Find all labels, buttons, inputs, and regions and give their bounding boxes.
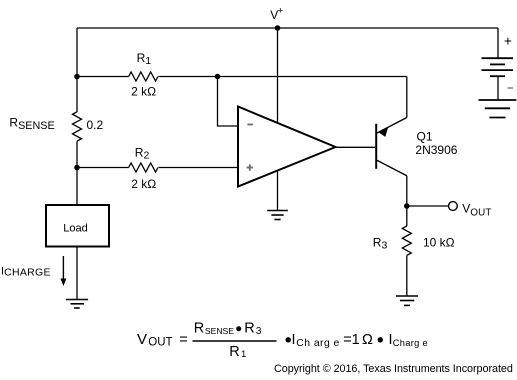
ground load	[66, 300, 88, 309]
op-amp minus pin mark	[247, 124, 252, 126]
svg-text:1: 1	[241, 349, 246, 360]
svg-text:Charg e: Charg e	[393, 338, 428, 348]
svg-text:I: I	[292, 332, 296, 348]
svg-text:ICHARGE: ICHARGE	[1, 265, 51, 278]
wire R2 net left	[77, 167, 129, 169]
ground op-amp	[267, 211, 288, 220]
svg-text:10 kΩ: 10 kΩ	[423, 236, 455, 250]
svg-text:3: 3	[256, 326, 262, 337]
wire output node to R3	[406, 206, 408, 226]
op-amp U1	[238, 107, 336, 187]
svg-text:Load: Load	[63, 222, 87, 234]
svg-text:Q1: Q1	[417, 130, 433, 144]
resistor R3	[402, 226, 411, 255]
node junction dot top of RSENSE	[74, 74, 80, 80]
wire to VOUT terminal	[407, 205, 449, 207]
wire battery to ground	[497, 76, 499, 100]
svg-text:OUT: OUT	[148, 337, 172, 349]
wire battery from rail	[497, 28, 499, 58]
svg-text:Copyright © 2016, Texas Instru: Copyright © 2016, Texas Instruments Inco…	[274, 363, 513, 375]
svg-text:V: V	[137, 331, 147, 348]
transistor Q1 base bar	[375, 124, 377, 169]
wire emitter net horizontal	[218, 76, 407, 78]
svg-text:+: +	[278, 6, 284, 17]
resistor R1	[129, 72, 158, 81]
svg-text:Ch arg e: Ch arg e	[296, 338, 339, 349]
node output junction dot	[404, 203, 410, 209]
resistor RSENSE	[73, 112, 82, 141]
wire op-amp V- supply to ground	[277, 171, 279, 211]
svg-text:Ω: Ω	[362, 332, 373, 348]
resistor R2	[129, 163, 158, 172]
battery B1 plates	[482, 58, 514, 76]
wire R1 right to feedback node	[159, 76, 218, 78]
node junction dot bottom of RSENSE	[74, 165, 80, 171]
load box	[46, 205, 109, 247]
formula VOUT equation	[137, 321, 428, 361]
wire collector down to output node	[406, 176, 408, 206]
wire R2 right to noninverting input	[159, 167, 238, 169]
wire left vertical upper	[76, 28, 78, 112]
wire op-amp output to base	[336, 146, 376, 148]
label battery minus	[508, 87, 514, 89]
svg-text:R: R	[244, 321, 254, 337]
terminal VOUT circle	[449, 202, 458, 211]
transistor Q1 emitter diagonal with arrow	[377, 118, 407, 134]
ground R3	[396, 296, 418, 305]
wire R3 to ground	[406, 256, 408, 297]
op-amp plus pin mark	[247, 167, 253, 169]
svg-text:2 kΩ: 2 kΩ	[131, 85, 156, 99]
wire load to ground	[76, 247, 78, 300]
arrow ICHARGE current direction	[62, 256, 64, 280]
wire R1 net left	[77, 76, 129, 78]
node V+ junction dot	[275, 25, 281, 31]
ground battery	[479, 100, 517, 118]
svg-text:SENSE: SENSE	[205, 326, 234, 336]
transistor Q1 collector diagonal	[377, 160, 407, 175]
wire left vertical lower	[76, 141, 78, 205]
svg-text:+: +	[504, 34, 512, 49]
wire emitter net vertical	[406, 77, 408, 118]
node feedback junction dot	[215, 74, 221, 80]
svg-text:=1: =1	[343, 332, 360, 348]
wire feedback to inverting input	[218, 77, 239, 127]
svg-text:R: R	[229, 344, 239, 360]
wire op-amp V+ supply	[277, 28, 279, 123]
svg-text:0.2: 0.2	[87, 118, 104, 132]
wire top rail V+	[77, 27, 498, 29]
svg-text:=: =	[179, 332, 187, 348]
svg-text:R: R	[194, 321, 204, 337]
svg-text:2 kΩ: 2 kΩ	[131, 177, 156, 191]
svg-text:2N3906: 2N3906	[415, 143, 457, 157]
